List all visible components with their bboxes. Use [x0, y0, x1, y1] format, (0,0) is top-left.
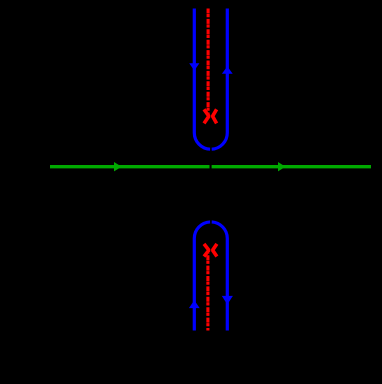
lower branch point X	[204, 244, 217, 257]
upper contour hairpin left half	[194, 9, 210, 150]
upper contour hairpin right half	[212, 9, 228, 150]
upper contour right arrow (up)	[222, 66, 233, 73]
lower contour hairpin right half	[212, 222, 228, 331]
lower contour hairpin left half	[194, 222, 210, 331]
lower branch cut (red dash-dot)	[206, 253, 209, 331]
upper branch point X	[204, 109, 217, 123]
lower contour right arrow (down)	[222, 296, 233, 305]
real axis right arrowhead	[278, 162, 286, 171]
real axis left segment	[50, 165, 210, 168]
real axis left arrowhead	[114, 162, 122, 171]
lower contour left arrow (up)	[189, 300, 200, 308]
real axis right segment	[212, 165, 371, 168]
upper contour left arrow (down)	[189, 63, 199, 70]
upper branch cut (red dash-dot)	[207, 9, 210, 117]
